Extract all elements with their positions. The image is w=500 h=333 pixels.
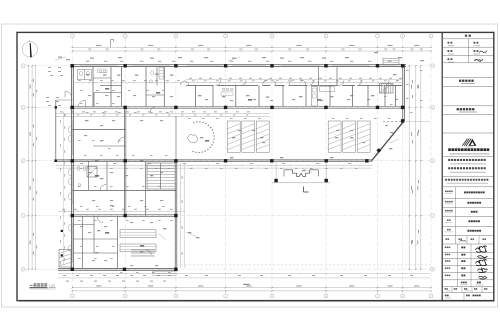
company logo	[462, 139, 467, 146]
site wall row C	[54, 159, 372, 161]
room A1 door arc	[78, 100, 85, 107]
left wing inner dimension chain	[180, 163, 182, 268]
wc circles room C1	[77, 167, 80, 171]
column right wall end	[401, 119, 404, 122]
parking stalls hatched group 2	[328, 121, 341, 152]
plan title text	[30, 284, 33, 287]
svg-text:8: 8	[402, 36, 403, 38]
table row3 right scribble	[475, 60, 482, 61]
wc stalls	[78, 69, 92, 80]
signature scribbles in table	[479, 51, 487, 53]
top window dim text row	[86, 61, 89, 62]
band project name 2	[443, 105, 493, 107]
casement windows west wall	[68, 126, 71, 133]
double door arcs pair 2	[289, 80, 306, 86]
overall dimension text	[243, 284, 250, 285]
svg-text:8: 8	[402, 296, 403, 298]
double door arcs pair 1	[263, 80, 277, 86]
left wing east wall upper thin	[175, 116, 177, 161]
grid bubbles top	[70, 34, 74, 38]
top band sub partitions	[100, 84, 121, 86]
porch line west	[55, 100, 57, 161]
company name	[448, 148, 451, 151]
left wing partitions	[72, 129, 125, 131]
left dimension chain	[28, 66, 30, 269]
svg-text:F: F	[432, 66, 433, 68]
columns row A	[71, 64, 74, 67]
row D upper dimension chain	[58, 210, 185, 212]
signature table header	[465, 35, 467, 37]
west porch annotation specks	[48, 67, 51, 68]
column on diagonal	[376, 148, 381, 153]
svg-text:3: 3	[175, 36, 176, 38]
columns row B	[55, 106, 57, 108]
address lines	[448, 159, 450, 161]
right wall dim connector	[404, 120, 431, 122]
svg-text:7: 7	[377, 36, 378, 38]
top wall entrance steps	[383, 58, 399, 64]
stairwell treads left wing	[147, 163, 175, 189]
title block left border	[441, 32, 443, 300]
window mid-lines west wall	[71, 120, 73, 155]
leader lines	[186, 232, 196, 237]
signature rows	[443, 252, 493, 254]
top dimension chain	[72, 46, 431, 48]
bathroom top-left	[156, 67, 158, 86]
svg-text:9: 9	[431, 36, 432, 38]
porch columns	[274, 179, 277, 182]
grid bubbles right	[431, 64, 435, 68]
grid bubbles left	[21, 64, 25, 68]
svg-text:5: 5	[272, 296, 273, 298]
bottom secondary dim chain	[58, 273, 430, 275]
svg-text:1: 1	[72, 36, 73, 38]
svg-text:1:100: 1:100	[49, 283, 56, 287]
discipline row	[443, 286, 493, 288]
diagonal wall	[372, 121, 404, 161]
dashed site line	[177, 264, 431, 266]
garage tables striped	[120, 230, 156, 238]
shaft with X	[87, 167, 97, 178]
svg-text:4: 4	[225, 36, 226, 38]
rolling door dashes	[383, 120, 385, 123]
svg-text:6: 6	[326, 36, 327, 38]
room A1 sub partition	[94, 92, 121, 94]
landscape hedge arc	[191, 122, 214, 153]
project info rows	[443, 198, 493, 200]
top annotation specks	[58, 57, 62, 58]
svg-text:2: 2	[125, 296, 126, 298]
plant symbol	[188, 134, 198, 142]
extra density specks	[80, 89, 83, 92]
left wing east wall	[174, 161, 176, 271]
svg-text:3: 3	[175, 296, 176, 298]
west exterior door arc	[65, 91, 72, 98]
lower wing partitions	[81, 216, 83, 268]
porch edge line	[272, 182, 330, 184]
corner ramp hatch	[59, 250, 71, 268]
note leader lines garage	[158, 233, 166, 240]
site wall dimension chain	[56, 164, 372, 166]
right side vertical specks	[412, 80, 413, 83]
room door arcs left wing	[100, 185, 106, 191]
company english	[450, 153, 490, 154]
plan title underline	[30, 287, 48, 289]
exterior wall right	[402, 65, 404, 122]
parking stalls hatched group 1	[227, 121, 240, 152]
wall row B	[70, 106, 404, 108]
mid dimension chain	[56, 113, 270, 115]
logo section divider	[443, 132, 493, 134]
corridor door arcs	[216, 80, 221, 85]
north arrow	[22, 42, 37, 57]
svg-text:1: 1	[72, 296, 73, 298]
exterior wall left	[71, 65, 73, 271]
stage row	[443, 243, 493, 245]
stair right wing	[380, 84, 394, 94]
certificate band	[445, 179, 447, 181]
bottom dimension chain	[72, 287, 430, 289]
kitchen counter	[312, 87, 318, 107]
drawing number row	[463, 293, 465, 300]
wall row D inside wing	[72, 214, 176, 216]
drawing frame	[17, 32, 494, 300]
certificate cells row	[443, 292, 493, 294]
corridor double door west	[181, 81, 189, 86]
column grid lines vertical	[71, 38, 73, 293]
entry steps bottom	[152, 271, 177, 273]
bath unit cluster	[222, 88, 225, 91]
wash basins	[99, 70, 102, 73]
svg-text:4: 4	[225, 296, 226, 298]
wall pilasters	[61, 230, 63, 232]
columns row E	[71, 268, 74, 271]
grid bubbles bottom	[70, 294, 74, 298]
columns row C	[55, 160, 57, 162]
handwritten signatures	[476, 246, 488, 252]
room label specks	[86, 74, 89, 75]
band project name 1	[443, 76, 493, 78]
signature table rows	[443, 46, 493, 48]
diagonal wall hatch ticks	[370, 160, 372, 163]
section cut symbol	[303, 187, 305, 193]
exterior wall bottom	[58, 267, 177, 269]
svg-text:F: F	[23, 66, 24, 68]
section flag top	[110, 40, 112, 48]
top band partition walls	[92, 67, 94, 107]
left wall inner dimension chain	[63, 112, 65, 264]
exterior wall top	[70, 64, 406, 66]
room name specks extra	[88, 95, 91, 96]
right dimension chain	[408, 66, 410, 270]
corridor dimension chain	[186, 79, 402, 81]
columns row D	[71, 214, 74, 217]
svg-text:5: 5	[272, 36, 273, 38]
corridor wall	[186, 84, 214, 86]
bold label specks	[105, 88, 109, 90]
sheet shadow	[19, 301, 495, 303]
svg-text:6: 6	[326, 296, 327, 298]
svg-text:2: 2	[125, 36, 126, 38]
window mid-lines top wall	[80, 65, 118, 67]
column grid lines horizontal	[25, 65, 430, 67]
svg-text:7: 7	[377, 296, 378, 298]
entrance porch outline	[284, 170, 318, 177]
left band dimension chain	[75, 82, 186, 84]
svg-text:9: 9	[431, 296, 432, 298]
bottom tertiary dim line	[58, 277, 430, 279]
